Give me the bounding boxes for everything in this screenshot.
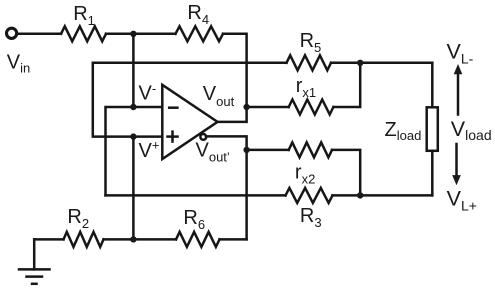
node Vout' junction dot (rx2 tap) [243,147,249,153]
wire (load to VL+ node) [431,151,434,196]
wire [223,34,247,107]
wire [106,33,176,36]
wire [104,238,177,241]
node VL+ junction dot [357,192,363,198]
impedance Z_load box [427,107,438,151]
wire (VL- node to load) [431,63,434,108]
node J1 junction dot [130,31,136,37]
wire [331,62,432,65]
input terminal Vin [7,28,17,38]
resistor rx2 [247,149,289,152]
wire (J1 down to V-) [132,34,135,107]
wire (rx1 right up to VL- node) [333,63,360,107]
wire (V- row) [106,107,163,195]
node R2/R6 junction dot [130,236,136,242]
wire (V+ down to R2/R6 junction) [132,137,135,240]
ground [33,239,36,269]
wire [18,33,62,36]
op-amp U1 [162,85,217,159]
node Vout junction dot (rx1 tap) [243,104,249,110]
output Vout' inverting bubble [200,134,206,140]
resistor R4 [176,26,224,41]
node V+ junction dot [130,133,136,139]
resistor R5 [287,55,332,70]
wire [220,238,247,241]
resistor R2 [64,232,104,247]
wire (V- leg to R3) [106,194,286,197]
node V- junction dot [130,104,136,110]
arrow VL- (up) [457,73,460,115]
wire (Vout' to rx2 tap and down) [206,136,247,239]
arrow VL+ (down) [455,144,458,176]
resistor rx1 [247,106,289,109]
wire [333,194,433,197]
node VL- junction dot [357,60,363,66]
wire (ground rail) [34,238,63,241]
wire (rx2 right down to VL+ node) [332,150,360,196]
wire (V+ net rail to R5) [93,63,287,137]
resistor R6 [176,232,220,247]
wire (Vout tip to rx1 tap) [218,107,247,122]
resistor R1 [61,26,106,41]
resistor R3 [286,188,333,203]
